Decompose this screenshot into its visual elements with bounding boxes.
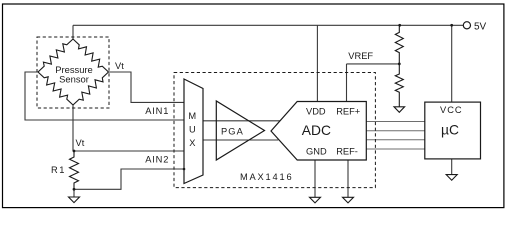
svg-text:Vt: Vt — [115, 61, 124, 71]
wire VDD drop — [316, 25, 318, 101]
ground under divider — [394, 107, 405, 113]
pressure sensor dashed box — [37, 37, 109, 108]
svg-text:ADC: ADC — [302, 123, 331, 138]
wire uC VCC drop — [451, 25, 453, 102]
wire uC ground — [451, 159, 453, 175]
MAX1416 dashed box — [174, 73, 375, 188]
5V terminal — [463, 22, 470, 29]
wire Vt node to MUX — [74, 150, 184, 152]
ground under GND pin — [310, 197, 321, 203]
wire Vt to AIN1 upper — [109, 72, 185, 102]
ground under uC — [446, 175, 457, 181]
svg-text:AIN1: AIN1 — [145, 106, 169, 116]
wire top 5V rail — [73, 24, 463, 26]
svg-text:REF+: REF+ — [336, 107, 360, 117]
svg-text:M: M — [188, 111, 196, 121]
svg-text:MAX1416: MAX1416 — [240, 172, 293, 182]
svg-text:AIN2: AIN2 — [145, 154, 169, 164]
op-amp PGA — [216, 101, 264, 160]
wire GND drop — [314, 160, 316, 197]
svg-text:X: X — [189, 138, 195, 148]
ADC block — [271, 102, 366, 161]
svg-text:R1: R1 — [51, 165, 66, 175]
svg-text:VREF: VREF — [348, 51, 373, 61]
svg-text:Sensor: Sensor — [59, 74, 89, 85]
wire bridge bottom to Vt node — [73, 105, 74, 151]
resistor divider upper — [395, 25, 403, 64]
svg-text:VCC: VCC — [440, 105, 463, 115]
resistor divider lower — [395, 64, 403, 107]
ground under REF- pin — [343, 197, 354, 203]
resistor R1 — [70, 151, 79, 189]
svg-text:µC: µC — [441, 122, 459, 137]
svg-text:VDD: VDD — [306, 107, 326, 117]
wire AIN2 step — [74, 169, 184, 189]
svg-text:REF-: REF- — [336, 147, 358, 157]
svg-text:GND: GND — [306, 147, 327, 157]
wire MUX to PGA/ADC diff pair — [203, 121, 280, 140]
wire digital interface lines — [366, 122, 425, 150]
svg-text:U: U — [189, 125, 196, 135]
wire rail drop to bridge top — [72, 25, 74, 39]
svg-text:PGA: PGA — [221, 127, 244, 137]
pressure sensor bridge — [38, 39, 109, 105]
svg-text:5V: 5V — [474, 22, 487, 33]
wire VREF — [347, 64, 400, 102]
mux U1 — [184, 79, 203, 184]
svg-text:Vt: Vt — [76, 138, 85, 148]
wire R1 bottom to ground — [73, 189, 75, 197]
wire bridge left vertex to AIN1 lower — [25, 72, 184, 120]
wire REF- drop — [347, 160, 349, 197]
uC block — [425, 102, 481, 159]
ground under R1 — [69, 197, 80, 203]
